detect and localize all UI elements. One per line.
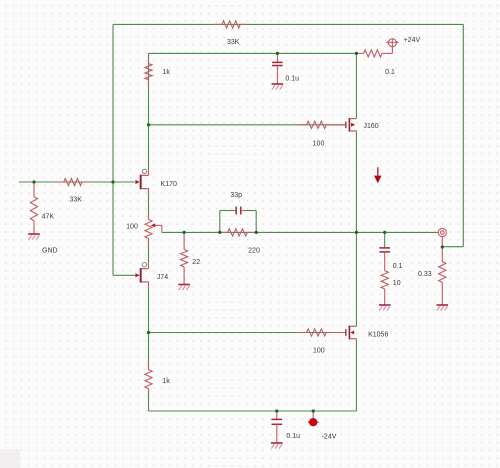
- supply +24V symbol: [391, 47, 393, 54]
- wire J160 gate row y=124.8: [149, 124, 346, 126]
- wire top feedback rail y=24: [113, 23, 463, 25]
- svg-text:100: 100: [313, 347, 325, 354]
- wire input row y=182: [19, 181, 135, 183]
- svg-text:100: 100: [313, 140, 325, 147]
- ground under 0.33: [437, 304, 449, 306]
- wire 33p branch left vertical: [219, 211, 221, 233]
- junction (384.7,232.4): [383, 231, 386, 234]
- svg-text:J74: J74: [157, 274, 168, 281]
- capacitor 0.1u lower bypass: [276, 411, 278, 419]
- pin circle J74 drain: [142, 263, 146, 267]
- wire 33p branch top left: [220, 210, 234, 212]
- svg-text:33p: 33p: [230, 192, 242, 199]
- resistor 100 J160 gate: [299, 124, 307, 126]
- junction (148.5,124.8): [147, 123, 150, 126]
- resistor 1k lower: [148, 363, 150, 370]
- svg-text:100: 100: [126, 224, 138, 231]
- wire node x=113 vertical from top rail to J74 gate: [112, 24, 114, 275]
- junction (148.5,332.5): [147, 331, 150, 334]
- ground under 10: [379, 304, 391, 306]
- wire upper supply row y=53: [149, 52, 357, 54]
- faint corner shading: [0, 449, 20, 468]
- wire left column x=148.5 upper segment: [148, 53, 150, 171]
- wire right rail to output junction: [442, 246, 463, 248]
- resistor 220: [221, 231, 228, 233]
- junction (277.4,53.4): [276, 52, 279, 55]
- annotation current arrow: [377, 167, 379, 176]
- wire K1056 gate row y=332.5: [149, 332, 346, 334]
- wire J74 gate horizontal stub: [113, 274, 135, 276]
- ground GND input: [28, 233, 40, 235]
- svg-text:33K: 33K: [69, 196, 82, 203]
- transistor J160: [345, 122, 346, 129]
- svg-text:-24V: -24V: [322, 433, 337, 440]
- resistor 10 output zobel: [384, 289, 386, 305]
- resistor 0.1 supply: [357, 52, 364, 54]
- wire main right rail x=356.4 bottom segment: [355, 339, 357, 411]
- svg-text:220: 220: [248, 248, 260, 255]
- svg-text:0.1u: 0.1u: [285, 76, 299, 83]
- transistor J74: [135, 273, 139, 277]
- junction (256.2,232.4): [255, 231, 258, 234]
- svg-text:0.1: 0.1: [385, 69, 395, 76]
- wire pot to J74 drain: [148, 239, 150, 265]
- ground under 22: [178, 284, 190, 286]
- svg-text:22: 22: [192, 259, 200, 266]
- svg-text:33K: 33K: [227, 39, 240, 46]
- svg-text:0.1: 0.1: [393, 263, 403, 270]
- supply -24V symbol: [312, 411, 314, 418]
- svg-text:+24V: +24V: [404, 37, 421, 44]
- svg-text:1k: 1k: [162, 378, 170, 385]
- capacitor 0.1u upper bypass: [276, 53, 278, 62]
- resistor 33K input: [57, 181, 64, 183]
- resistor 100 K1056 gate: [299, 332, 307, 334]
- resistor 47K input to ground: [33, 182, 35, 197]
- connector output pad: [438, 228, 446, 236]
- wire K170 source to pot: [148, 193, 150, 220]
- junction (313.2,411): [312, 409, 315, 412]
- junction (276.8,411): [275, 409, 278, 412]
- wire pot wiper corner: [155, 224, 162, 226]
- junction (356.4,232.4): [355, 231, 358, 234]
- wire output filter stub: [384, 232, 386, 246]
- wire 33p branch top right: [243, 210, 256, 212]
- resistor 33K top feedback: [214, 23, 222, 25]
- svg-text:10: 10: [393, 280, 401, 287]
- resistor 0.33 output: [441, 247, 443, 262]
- resistor 1k upper: [148, 57, 150, 64]
- pin circle K170 drain: [142, 169, 146, 173]
- junction (113,182): [111, 180, 114, 183]
- wire main right rail x=356.4 middle segment: [355, 131, 357, 232]
- junction (219.8,232.4): [218, 231, 221, 234]
- transistor K1056: [345, 329, 346, 336]
- junction (34,182): [32, 180, 35, 183]
- wire right vertical rail x=463: [462, 24, 464, 246]
- svg-text:1k: 1k: [162, 69, 170, 76]
- svg-text:GND: GND: [42, 248, 58, 255]
- svg-text:J160: J160: [364, 123, 379, 130]
- svg-text:K170: K170: [161, 181, 177, 188]
- svg-text:0.1u: 0.1u: [286, 433, 300, 440]
- svg-text:0.33: 0.33: [418, 271, 432, 278]
- wire bottom rail y=411: [149, 410, 357, 412]
- junction (442.3,247): [441, 245, 444, 248]
- svg-text:47K: 47K: [42, 213, 55, 220]
- wire main right rail x=356.4 top segment: [355, 53, 357, 118]
- capacitor 0.1 output zobel: [384, 247, 386, 248]
- wire 33p branch right vertical: [255, 211, 257, 233]
- wire output row y=232.4: [162, 231, 438, 233]
- resistor 22 to ground: [183, 232, 185, 249]
- junction (356.4,53.4): [355, 52, 358, 55]
- wire J74 source down to lower gate row: [148, 287, 150, 370]
- transistor K170: [135, 180, 139, 184]
- potentiometer 100: [148, 215, 150, 220]
- wire main right rail x=356.4 lower segment: [355, 232, 357, 326]
- junction (184.1,232.4): [183, 231, 186, 234]
- capacitor 33p: [234, 210, 236, 212]
- wire left column bottom segment: [148, 389, 150, 411]
- svg-text:K1056: K1056: [368, 332, 388, 339]
